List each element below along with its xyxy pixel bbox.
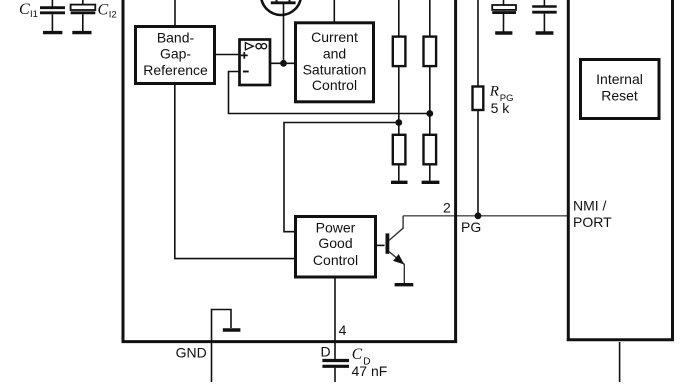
svg-text:Power: Power	[316, 220, 356, 236]
svg-text:NMI /: NMI /	[573, 197, 607, 213]
svg-text:Internal: Internal	[596, 71, 643, 87]
svg-text:Saturation: Saturation	[303, 62, 367, 78]
svg-text:2: 2	[443, 199, 451, 215]
svg-text:C: C	[19, 1, 30, 18]
svg-text:C: C	[352, 346, 363, 363]
svg-text:PORT: PORT	[573, 214, 612, 230]
svg-text:Gap-: Gap-	[160, 46, 191, 62]
svg-text:and: and	[323, 45, 346, 61]
svg-text:Reference: Reference	[143, 62, 208, 78]
svg-text:GND: GND	[176, 345, 207, 361]
svg-text:Band-: Band-	[157, 30, 195, 46]
svg-text:4: 4	[339, 322, 347, 338]
svg-text:Current: Current	[311, 29, 358, 45]
svg-text:I1: I1	[30, 9, 38, 20]
svg-text:D: D	[363, 356, 370, 367]
svg-text:Reset: Reset	[601, 88, 638, 104]
svg-text:Control: Control	[312, 77, 357, 93]
svg-text:I2: I2	[109, 9, 117, 20]
svg-text:R: R	[489, 84, 499, 100]
svg-text:PG: PG	[500, 93, 514, 104]
svg-text:D: D	[321, 344, 331, 360]
svg-text:PG: PG	[461, 219, 481, 235]
svg-text:C: C	[98, 1, 109, 18]
svg-text:Control: Control	[313, 252, 358, 268]
svg-text:Good: Good	[318, 235, 352, 251]
